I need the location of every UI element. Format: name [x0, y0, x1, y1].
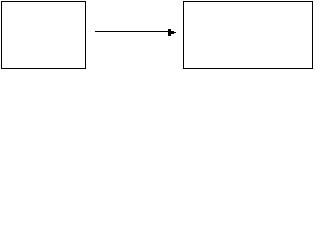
arrow wire (shaft, row 31, cols 95-173) [95, 31, 174, 32]
left box [2, 2, 86, 69]
arrowhead (per-row pixel extents, tip on row 32 to col 175) [168, 29, 176, 36]
right box [184, 2, 313, 69]
